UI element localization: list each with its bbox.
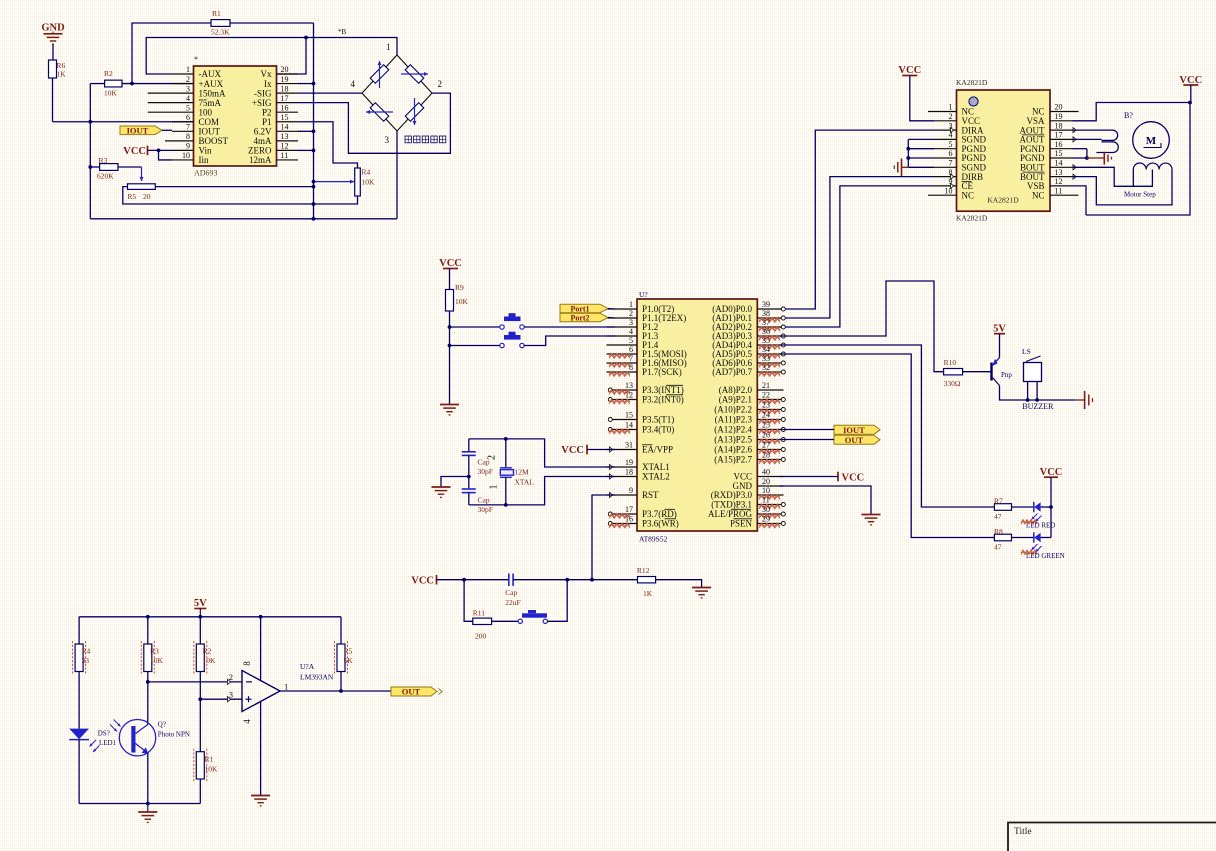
svg-text:6: 6 <box>186 113 190 122</box>
svg-text:(A8)P2.0: (A8)P2.0 <box>719 385 753 395</box>
MCU pin 5 P1.4 <box>607 336 659 350</box>
wire AOUT2 lead <box>1073 138 1102 140</box>
svg-text:Port1: Port1 <box>570 304 589 313</box>
svg-text:ALE/PROG: ALE/PROG <box>708 509 753 519</box>
svg-text:15: 15 <box>1055 149 1063 158</box>
MCU pin 40 VCC <box>733 468 783 482</box>
wire button1 to P1.2 <box>524 326 615 328</box>
svg-text:BOOST: BOOST <box>199 136 229 146</box>
junction R5 right <box>312 185 316 189</box>
junction button2 <box>448 344 452 348</box>
svg-text:R4: R4 <box>82 647 91 656</box>
wire P1 to R4 top <box>298 122 358 168</box>
wire R12 to ground <box>656 580 702 587</box>
svg-text:(A14)P2.6: (A14)P2.6 <box>714 445 752 455</box>
MCU pin 7 P1.6(MISO) <box>607 354 687 368</box>
net flag OUT (MCU) <box>834 435 880 445</box>
svg-text:(A9)P2.1: (A9)P2.1 <box>719 395 752 405</box>
svg-text:16: 16 <box>625 515 633 524</box>
KA pin 1 NC <box>928 103 974 117</box>
pin 6 COM <box>172 113 219 127</box>
svg-text:12: 12 <box>281 142 289 151</box>
resistor R5 5K (opamp) <box>335 641 354 675</box>
svg-text:R4: R4 <box>362 168 371 177</box>
svg-text:1: 1 <box>489 485 500 490</box>
strain gauge R (node1-node4) <box>370 65 389 84</box>
svg-text:25: 25 <box>762 421 770 430</box>
wire pin40 VCC <box>780 476 839 478</box>
svg-text:R2: R2 <box>203 647 212 656</box>
svg-text:P3.7(RD): P3.7(RD) <box>642 509 677 519</box>
chip U? AT89S52 <box>637 290 757 544</box>
svg-text:R1: R1 <box>212 9 221 18</box>
svg-text:P3.3(INT1): P3.3(INT1) <box>642 385 684 395</box>
svg-text:LM393AN: LM393AN <box>300 673 334 682</box>
KA pin 3 DIRA <box>934 121 984 135</box>
wire noninverting input <box>200 698 242 700</box>
svg-text:IOUT: IOUT <box>127 125 149 135</box>
svg-text:12: 12 <box>625 391 633 400</box>
svg-text:11: 11 <box>1055 186 1063 195</box>
svg-text:Port2: Port2 <box>570 313 589 322</box>
svg-text:KA2821D: KA2821D <box>987 196 1019 205</box>
svg-text:R12: R12 <box>637 566 650 575</box>
svg-text:Iin: Iin <box>199 155 209 165</box>
svg-text:Vin: Vin <box>199 146 212 156</box>
svg-text:+SIG: +SIG <box>252 98 272 108</box>
MCU pin 14 P3.4(T0) <box>608 421 674 435</box>
svg-text:17: 17 <box>281 94 289 103</box>
svg-text:P3.5(T1): P3.5(T1) <box>642 415 674 425</box>
junction PGND6 <box>906 156 910 160</box>
MCU pin 21 (A8)P2.0 <box>719 381 784 395</box>
winding A loop1 <box>1073 130 1118 140</box>
title block <box>1008 823 1216 851</box>
wire COM row (pin6) <box>53 121 194 123</box>
svg-text:5K: 5K <box>344 656 354 665</box>
wire R3 left <box>90 166 99 168</box>
svg-text:-AUX: -AUX <box>199 69 222 79</box>
svg-text:+AUX: +AUX <box>199 79 224 89</box>
resistor R7 47 <box>994 497 1012 522</box>
svg-text:ZERO: ZERO <box>248 146 272 156</box>
svg-text:47: 47 <box>994 512 1002 521</box>
svg-text:12mA: 12mA <box>249 155 272 165</box>
wire VCC to EA <box>587 449 615 451</box>
svg-text:10K: 10K <box>203 656 217 665</box>
svg-text:VCC: VCC <box>898 65 921 76</box>
svg-text:U?: U? <box>639 290 648 299</box>
pin 5 100 <box>148 103 213 117</box>
svg-text:20: 20 <box>143 192 151 201</box>
ground (xtal) <box>432 486 451 488</box>
svg-text:10K: 10K <box>104 89 118 98</box>
svg-text:33: 33 <box>762 354 770 363</box>
wire R1 right to Ix rail <box>230 22 314 24</box>
junction Vin/Iin <box>157 149 161 153</box>
pushbutton reset <box>518 610 547 624</box>
svg-text:P3.6(WR): P3.6(WR) <box>642 519 679 529</box>
svg-text:4: 4 <box>949 131 953 140</box>
wire pin4 power <box>260 701 262 795</box>
junction PGND right <box>1085 156 1089 160</box>
power VCC (motor) <box>1179 75 1202 86</box>
svg-text:VCC: VCC <box>842 472 865 483</box>
earth ground (KA left) <box>894 159 908 177</box>
arrow R5 wiper <box>141 167 143 181</box>
pin 13 4mA <box>254 132 299 146</box>
wire Iin elbow <box>159 150 173 160</box>
svg-text:200: 200 <box>475 632 487 641</box>
svg-text:(A12)P2.4: (A12)P2.4 <box>714 425 752 435</box>
wire R10 to base <box>963 371 991 373</box>
svg-text:LED GREEN: LED GREEN <box>1026 552 1065 560</box>
pin 3 150mA <box>148 84 226 98</box>
diode DS? LED1 <box>69 729 99 752</box>
arrow R4 wiper <box>314 181 355 183</box>
strain gauge R (node2-node3) <box>405 103 424 122</box>
svg-text:(AD7)P0.7: (AD7)P0.7 <box>712 367 752 377</box>
svg-text:6: 6 <box>629 345 633 354</box>
svg-text:3: 3 <box>629 318 633 327</box>
wire pin20 GND <box>780 486 872 514</box>
svg-text:10K: 10K <box>455 297 469 306</box>
overline PSEN <box>734 518 753 520</box>
svg-text:VCC: VCC <box>123 146 146 157</box>
svg-text:R11: R11 <box>473 609 485 618</box>
wire R11 branch down <box>464 580 473 622</box>
wire xtal bottom rail <box>469 477 615 505</box>
svg-text:R5: R5 <box>128 192 137 201</box>
svg-text:COM: COM <box>199 117 220 127</box>
svg-text:8: 8 <box>629 363 633 372</box>
wire CE to P0.2 <box>780 186 935 327</box>
junction R3 row <box>88 165 92 169</box>
svg-text:R3: R3 <box>99 156 108 165</box>
wire DIRA to P0.0 <box>780 130 935 309</box>
crystal Y1 12M <box>500 439 534 505</box>
svg-text:4: 4 <box>242 719 252 724</box>
svg-text:NC: NC <box>962 190 975 200</box>
svg-text:3: 3 <box>186 84 190 93</box>
svg-text:1K: 1K <box>57 70 67 79</box>
diode LED GREEN <box>1032 532 1052 552</box>
svg-text:14: 14 <box>625 421 633 430</box>
junction Ix <box>312 82 316 86</box>
ground (buttons) <box>440 404 459 406</box>
svg-text:VCC: VCC <box>439 258 462 269</box>
wire R5 left leg <box>123 187 314 204</box>
wire R6 to COM rail <box>52 78 54 122</box>
wire opamp bottom rail <box>79 803 200 805</box>
svg-text:LED1: LED1 <box>99 739 117 747</box>
svg-text:4: 4 <box>629 327 633 336</box>
wire R11 to button <box>492 620 518 622</box>
pin 4 75mA <box>148 94 222 108</box>
svg-text:2: 2 <box>949 112 953 121</box>
junction ZERO <box>312 149 316 153</box>
wire pin8 power <box>260 617 262 682</box>
overline INT1 <box>666 384 683 386</box>
svg-text:DS?: DS? <box>98 730 110 738</box>
svg-text:10K: 10K <box>362 178 376 187</box>
KA pin 14 BOUT <box>1020 159 1076 173</box>
resistor R9 10K <box>446 283 469 311</box>
svg-text:22: 22 <box>762 391 770 400</box>
svg-text:150mA: 150mA <box>199 88 227 98</box>
pin 2 +AUX <box>172 75 224 89</box>
resistor R10 330 <box>944 358 963 388</box>
pin 7 IOUT <box>172 123 220 137</box>
svg-text:22uF: 22uF <box>505 598 520 607</box>
svg-text:7: 7 <box>949 159 953 168</box>
svg-text:*: * <box>194 55 198 64</box>
wire Port1 to pin1 <box>608 308 615 311</box>
MCU pin 12 P3.2(INT0) <box>608 391 683 405</box>
svg-text:BUZZER: BUZZER <box>1022 402 1054 411</box>
svg-text:10: 10 <box>182 151 190 160</box>
junction 6.2V <box>312 129 316 133</box>
KA pin 11 NC <box>1032 186 1079 200</box>
svg-text:OUT: OUT <box>845 435 864 445</box>
svg-text:35: 35 <box>762 336 770 345</box>
svg-text:Cap: Cap <box>478 496 490 505</box>
KA pin 20 NC <box>1032 103 1079 117</box>
junction inverting input <box>146 680 150 684</box>
svg-text:6: 6 <box>949 149 953 158</box>
junction reset btn right <box>565 578 569 582</box>
wire motor right rail <box>1086 103 1190 216</box>
ground (opamp pin4) <box>251 795 270 797</box>
svg-text:U?A: U?A <box>300 662 315 671</box>
svg-text:2: 2 <box>629 309 633 318</box>
svg-text:8: 8 <box>186 132 190 141</box>
motor circle B? <box>1133 122 1170 159</box>
power VCC (reset) <box>411 575 436 587</box>
svg-text:R8: R8 <box>994 527 1003 536</box>
input marker pin2 <box>228 679 231 684</box>
power VCC (KA left) <box>898 65 921 76</box>
svg-text:-SIG: -SIG <box>254 88 272 98</box>
svg-text:Photo NPN: Photo NPN <box>158 731 190 739</box>
MCU pin 33 (AD6)P0.6 <box>712 354 785 368</box>
MCU pin 36 (AD3)P0.3 <box>712 327 785 341</box>
svg-text:(A11)P2.3: (A11)P2.3 <box>715 415 753 425</box>
svg-text:100: 100 <box>199 107 213 117</box>
svg-text:30: 30 <box>762 505 770 514</box>
svg-text:5V: 5V <box>194 598 207 609</box>
svg-text:36: 36 <box>762 327 770 336</box>
svg-text:1: 1 <box>629 300 633 309</box>
KA pin 9 CE <box>934 177 974 191</box>
MCU pin 16 P3.6(WR) <box>608 515 678 529</box>
svg-text:9: 9 <box>186 142 190 151</box>
svg-text:34: 34 <box>762 345 770 354</box>
wire 6.2V pin14 connect <box>298 130 314 132</box>
bridge edge 3-4 <box>362 93 397 131</box>
junction lead2 <box>1035 398 1039 402</box>
overline RD <box>665 508 676 510</box>
net flag OUT (opamp) <box>391 687 442 697</box>
ground (opamp left) <box>138 804 157 823</box>
svg-text:11: 11 <box>281 151 289 160</box>
svg-text:XTAL: XTAL <box>515 478 535 487</box>
arrow gauge up <box>379 61 381 88</box>
svg-text:8: 8 <box>242 661 252 666</box>
wire R7 to LED <box>1012 506 1034 508</box>
wire button to cap right <box>548 580 568 622</box>
wire VCC drop <box>1190 85 1192 103</box>
strain gauge R (node4-node3) <box>370 103 389 122</box>
wire P0.5 to R8 <box>780 354 995 538</box>
junction PGND5 <box>906 147 910 151</box>
MCU pin 8 P1.7(SCK) <box>607 363 682 377</box>
junction noninverting input <box>198 697 202 701</box>
junction Vx riser <box>304 36 308 40</box>
svg-text:10: 10 <box>762 486 770 495</box>
svg-text:R7: R7 <box>994 497 1003 506</box>
resistor R4 33 <box>73 641 91 675</box>
arrow gauge down <box>414 98 416 125</box>
wire VCC to Vin <box>148 149 173 151</box>
MCU pin 2 P1.1(T2EX) <box>607 309 687 323</box>
svg-text:10: 10 <box>945 186 953 195</box>
wire R8 to LED <box>1012 537 1034 539</box>
arrow gauge right <box>401 73 428 75</box>
potentiometer R5 20 <box>128 184 156 201</box>
pin 1 -AUX <box>172 65 221 79</box>
KA pin 5 PGND <box>934 140 987 154</box>
svg-text:39: 39 <box>762 300 770 309</box>
svg-text:7: 7 <box>629 354 633 363</box>
svg-text:14: 14 <box>281 123 289 132</box>
svg-text:17: 17 <box>1055 131 1063 140</box>
svg-text:IOUT: IOUT <box>199 127 221 137</box>
junction VCC rail <box>1188 101 1192 105</box>
MCU pin 32 (AD7)P0.7 <box>712 363 785 377</box>
svg-text:PSEN: PSEN <box>730 519 753 529</box>
resistor R1 52.3K <box>211 9 230 37</box>
svg-text:LED RED: LED RED <box>1026 522 1055 530</box>
ground (reset) <box>692 587 711 589</box>
MCU pin 9 RST <box>607 486 660 500</box>
winding A loop2 <box>1096 142 1118 153</box>
svg-text:17: 17 <box>625 505 633 514</box>
svg-text:P1: P1 <box>262 117 272 127</box>
svg-text:R5: R5 <box>344 647 353 656</box>
wire 5V to emitter <box>999 334 1001 358</box>
capacitor C1 30pF <box>462 439 493 477</box>
KA pin 13 BOUT <box>1020 168 1076 182</box>
svg-text:13: 13 <box>625 381 633 390</box>
svg-text:XTAL2: XTAL2 <box>642 472 670 482</box>
wire Ix rail vertical <box>313 23 315 219</box>
svg-text:P2: P2 <box>262 107 272 117</box>
chip B? KA2821D <box>956 78 1050 223</box>
svg-text:M: M <box>1146 135 1157 147</box>
MCU pin 34 (AD5)P0.5 <box>712 345 785 359</box>
svg-text:VCC: VCC <box>733 472 752 482</box>
earth ground (buzzer) <box>1075 391 1092 409</box>
svg-text:5: 5 <box>629 336 633 345</box>
MCU pin 26 (A13)P2.5 <box>714 431 785 445</box>
input marker pin3 <box>228 697 231 702</box>
winding B coil <box>1133 163 1172 169</box>
svg-text:9: 9 <box>629 486 633 495</box>
svg-text:24: 24 <box>762 411 770 420</box>
wire SGND/PGND bracket <box>908 139 934 167</box>
svg-text:32: 32 <box>762 363 770 372</box>
svg-text:19: 19 <box>281 75 289 84</box>
svg-text:OUT: OUT <box>402 687 421 697</box>
svg-text:R9: R9 <box>455 283 464 292</box>
svg-text:5: 5 <box>949 140 953 149</box>
wire Port2 to pin2 <box>608 317 615 320</box>
junction bottom rail <box>146 802 150 806</box>
svg-text:2: 2 <box>487 455 498 460</box>
svg-text:10K: 10K <box>205 765 219 774</box>
pushbutton S2 <box>450 332 525 348</box>
power VCC (EA) <box>561 445 587 456</box>
svg-text:KA2821D: KA2821D <box>956 78 988 87</box>
svg-text:1: 1 <box>186 65 190 74</box>
svg-text:21: 21 <box>762 381 770 390</box>
svg-text:*B: *B <box>338 28 347 36</box>
wire node3 down <box>396 131 398 219</box>
junction RST column <box>590 578 594 582</box>
svg-text:Motor Step: Motor Step <box>1124 191 1156 199</box>
svg-text:20: 20 <box>1055 103 1063 112</box>
svg-text:38: 38 <box>762 309 770 318</box>
wire xtal ground <box>441 477 469 487</box>
KA pin 16 PGND <box>1020 140 1073 154</box>
wire P0.4 to R7 <box>780 345 995 507</box>
MCU pin 29 PSEN <box>730 515 785 529</box>
svg-text:12: 12 <box>1055 177 1063 186</box>
svg-text:2: 2 <box>438 79 443 89</box>
chip U? AD693 <box>194 55 277 178</box>
net flag IOUT (MCU) <box>834 425 880 435</box>
wire RST <box>592 495 615 580</box>
svg-text:18: 18 <box>281 84 289 93</box>
overline EA <box>642 444 653 446</box>
junction R11 branch <box>462 578 466 582</box>
KA pin 15 PGND <box>1020 149 1073 163</box>
pin 11 12mA <box>249 151 298 165</box>
wire PGND bracket right <box>1073 149 1087 158</box>
wire R4 to LED <box>78 672 80 729</box>
KA pin 7 SGND <box>934 159 987 173</box>
wire VCC LED column <box>1050 477 1052 537</box>
svg-text:16: 16 <box>1055 140 1063 149</box>
MCU pin 39 (AD0)P0.0 <box>712 300 785 314</box>
svg-text:30pF: 30pF <box>478 505 493 514</box>
svg-text:5: 5 <box>186 103 190 112</box>
resistor R2 10K (opamp) <box>194 641 216 675</box>
svg-text:(TXD)P3.1: (TXD)P3.1 <box>711 500 752 510</box>
junction button1 <box>448 325 452 329</box>
wire buzzer lead 1 <box>1027 382 1029 401</box>
svg-text:P3.4(T0): P3.4(T0) <box>642 425 674 435</box>
overline WR <box>665 518 677 520</box>
power GND flag (top-left) <box>41 23 65 45</box>
wire R4 bottom leg <box>314 196 358 204</box>
svg-text:13: 13 <box>1055 168 1063 177</box>
junction rail pin8 <box>259 615 263 619</box>
bridge edge 4-1 <box>362 55 397 93</box>
wire R5 right <box>155 186 313 188</box>
junction caps mid <box>467 475 471 479</box>
